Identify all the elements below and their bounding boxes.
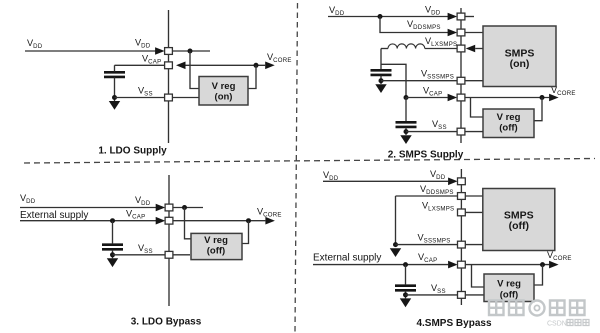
label VLXSMPS (Q2) bbox=[425, 36, 457, 48]
wire: Q2 internal VDD stub bbox=[465, 16, 474, 18]
capacitor C3 (Q2 lower cap) bbox=[396, 122, 417, 135]
wire: Q4 VSS to V reg bbox=[465, 294, 484, 296]
pin VCAP (Q3) bbox=[165, 217, 173, 224]
wire: Q1 VDD rail bbox=[25, 50, 156, 52]
svg-text:(on): (on) bbox=[510, 58, 530, 70]
wire: Q2 VDDSMPS to SMPS box bbox=[465, 32, 483, 34]
wire: Q2 VDD drop to VDDSMPS rail bbox=[380, 17, 448, 33]
ground (Q3) bbox=[107, 258, 118, 267]
wire: Q4 chip boundary vertical line bbox=[460, 169, 462, 305]
pin VCAP (Q4) bbox=[458, 261, 466, 268]
wire: Q3 internal VDD stub bbox=[173, 207, 203, 209]
pin VDD (Q2) bbox=[457, 13, 465, 20]
svg-text:V reg: V reg bbox=[497, 279, 521, 290]
wire: Q4 VDDSMPS drop to ground bbox=[395, 196, 397, 245]
label VDD (at pin, Q1) bbox=[135, 38, 151, 50]
pin VDD (Q4) bbox=[458, 178, 466, 185]
svg-text:V reg: V reg bbox=[204, 235, 228, 246]
label VSSSMPS (Q4) bbox=[418, 233, 451, 245]
label VDDSMPS (Q2) bbox=[407, 19, 441, 31]
node: Q2 VCORE junction bbox=[540, 95, 545, 100]
caption: 4.SMPS Bypass bbox=[416, 318, 491, 329]
wire: Q2 inductor left lead down to cap bbox=[380, 49, 382, 70]
svg-text:(off): (off) bbox=[509, 220, 529, 232]
arrow VCORE out (Q2) bbox=[549, 94, 559, 102]
node: Q1 VCORE junction bbox=[254, 63, 259, 68]
node: Q2 VCAP junction bbox=[404, 95, 409, 100]
wire: Q2 VDD rail bbox=[328, 16, 448, 18]
label VDD (far left, Q4) bbox=[323, 170, 339, 182]
wire: Q2 SMPS box to VLXSMPS arrow bbox=[475, 48, 483, 50]
wire: Q1 VSS to V reg bbox=[172, 97, 199, 99]
node: Q2 VDD junction bbox=[378, 14, 383, 19]
capacitor C2 (Q2 upper cap) bbox=[371, 70, 392, 84]
pin VDD (Q3) bbox=[165, 204, 173, 211]
svg-text:(off): (off) bbox=[500, 289, 518, 300]
label VCAP (Q2) bbox=[423, 86, 442, 98]
pin VDD (Q1) bbox=[165, 48, 173, 55]
wire: Q4 VCORE rail bbox=[465, 264, 549, 266]
svg-text:External supply: External supply bbox=[313, 252, 381, 263]
regulator U5: V reg (off) bbox=[484, 274, 534, 302]
node: Q4 cap junction bbox=[403, 262, 408, 267]
wire: Q3 VSS to V reg bbox=[173, 254, 190, 256]
arrow into VDD pin (Q4) bbox=[448, 178, 458, 186]
pin VDDSMPS (Q4) bbox=[458, 193, 466, 200]
pin VSS (Q4) bbox=[458, 292, 466, 299]
label VCORE (Q1) bbox=[267, 52, 292, 64]
regulator U4: V reg (off) bbox=[191, 233, 242, 259]
wire: Q2 VCAP drop to V reg left bbox=[471, 98, 484, 118]
label VCAP (Q4) bbox=[418, 252, 437, 264]
wire: Q4 VSSSMPS rail bbox=[396, 244, 458, 246]
arrow VCORE out (Q4) bbox=[549, 261, 559, 269]
wire: Q2 VSS rail bbox=[406, 131, 457, 133]
svg-text:2. SMPS Supply: 2. SMPS Supply bbox=[388, 150, 464, 161]
wire: Q3 chip boundary vertical line bbox=[168, 175, 170, 306]
node: Q3 cap/VSS junction bbox=[110, 252, 115, 257]
wire: Q1 VCORE rail bbox=[186, 64, 266, 66]
pin VSSSMPS (Q4) bbox=[458, 241, 466, 248]
separator: horizontal dashed divider between top and bottom halves bbox=[24, 159, 595, 164]
label VCORE (Q2) bbox=[551, 85, 576, 97]
watermark: CSDN @jitie bbox=[547, 320, 589, 328]
wire: Q4 VSS rail bbox=[406, 294, 458, 296]
label VDD (at pin, Q3) bbox=[135, 195, 151, 207]
node: Q1 cap/VSS junction bbox=[112, 95, 117, 100]
wire: Q3 VDD rail bbox=[20, 207, 156, 209]
node: Q3 cap junction bbox=[110, 218, 115, 223]
wire: Q2 VCAP node down to lower cap bbox=[405, 98, 407, 122]
caption: 3. LDO Bypass bbox=[131, 317, 202, 328]
wire: Q4 VDDSMPS to SMPS box bbox=[465, 195, 483, 197]
arrow VCORE out (Q3) bbox=[265, 217, 275, 225]
regulator U1: V reg (on) bbox=[199, 77, 248, 106]
capacitor C4 (Q3 external cap) bbox=[102, 221, 123, 259]
label VDDSMPS (Q4) bbox=[420, 184, 454, 196]
label VSS (Q4) bbox=[431, 283, 446, 295]
pin VDDSMPS (Q2) bbox=[457, 29, 465, 36]
node: Q2 cap/VSSSMPS junction bbox=[379, 78, 384, 83]
wire: Q2 VSSSMPS rail bbox=[381, 80, 457, 82]
wire: Q2 VCAP rail bbox=[406, 97, 448, 99]
label VSSSMPS (Q2) bbox=[421, 69, 454, 81]
svg-text:(off): (off) bbox=[499, 122, 517, 133]
wire: Q1 VSS rail bbox=[115, 97, 165, 99]
SMPS block U3: SMPS (on) bbox=[483, 26, 556, 87]
arrow into VDD pin (Q1) bbox=[155, 47, 165, 55]
wire: Q4 VCORE drop to V reg right bbox=[534, 265, 543, 285]
arrow into VDD pin (Q3) bbox=[156, 204, 166, 212]
label VCORE (Q4) bbox=[547, 250, 572, 262]
SMPS block U6: SMPS (off) bbox=[483, 189, 555, 251]
wire: Q4 VCAP drop to V reg left bbox=[472, 265, 485, 287]
pin VLXSMPS (Q4) bbox=[458, 209, 466, 216]
wire: Q3 VCORE drop to V reg bbox=[242, 221, 249, 244]
capacitor C1 (Q1 external cap) bbox=[104, 65, 125, 101]
ground (Q4 lower) bbox=[400, 298, 411, 307]
svg-text:CSDN: CSDN bbox=[547, 321, 567, 328]
wire: Q2 VSS to V reg bbox=[465, 131, 483, 133]
svg-text:1. LDO Supply: 1. LDO Supply bbox=[98, 146, 167, 157]
arrow into VDD pin (Q2) bbox=[448, 13, 458, 21]
arrow into VCAP pin (Q1) bbox=[176, 62, 186, 70]
arrow into VCAP pin (Q2) bbox=[448, 94, 458, 102]
label VSS (Q1) bbox=[138, 86, 153, 98]
pin VSS (Q2) bbox=[457, 128, 465, 135]
wire: Q4 external supply rail bbox=[313, 264, 448, 266]
ground (Q1) bbox=[109, 101, 120, 110]
node: Q3 VDD junction bbox=[182, 205, 187, 210]
pin VLXSMPS (Q2) bbox=[457, 45, 465, 52]
wire: Q1 chip boundary vertical line bbox=[168, 10, 170, 143]
wire: Q2 branch from cap node to VCAP rail bbox=[381, 64, 406, 97]
svg-text:External supply: External supply bbox=[20, 210, 88, 221]
label VDD (far left, Q2) bbox=[329, 5, 345, 17]
label VSS (Q2) bbox=[432, 119, 447, 131]
ground (Q2 upper) bbox=[375, 84, 386, 93]
wire: Q2 chip boundary vertical line bbox=[460, 8, 462, 143]
wire: Q3 VCORE rail bbox=[173, 220, 266, 222]
wire: Q1 VDD drop to V reg bbox=[190, 51, 199, 89]
pin VCAP (Q2) bbox=[457, 94, 465, 101]
arrow into VLXSMPS pin (Q2) bbox=[466, 45, 476, 53]
svg-text:4.SMPS Bypass: 4.SMPS Bypass bbox=[416, 318, 491, 329]
pin VCAP (Q1) bbox=[165, 62, 173, 69]
label VCORE (Q3) bbox=[257, 207, 282, 219]
label VCAP (Q1) bbox=[142, 54, 161, 66]
node: Q2 lower cap/VSS junction bbox=[404, 129, 409, 134]
pin VSSSMPS (Q2) bbox=[457, 77, 465, 84]
label: External supply (Q3) bbox=[20, 210, 88, 221]
wire: Q4 VDDSMPS rail bbox=[396, 195, 458, 197]
wire: Q1 VCORE drop to V reg bbox=[248, 65, 256, 88]
ground (Q2 lower) bbox=[400, 135, 411, 144]
svg-text:(on): (on) bbox=[215, 91, 233, 102]
label VCAP (Q3) bbox=[126, 209, 145, 221]
arrow VCORE out (Q1) bbox=[265, 62, 275, 70]
wire: Q3 VDD drop to V reg bbox=[185, 208, 192, 239]
inductor L1 (Q2) bbox=[381, 44, 457, 49]
arrow into VDDSMPS pin (Q2) bbox=[448, 29, 458, 37]
separator: vertical dashed divider between left and right halves bbox=[295, 3, 298, 332]
wire: Q2 VSSSMPS to SMPS box bbox=[465, 80, 483, 82]
pin VSS (Q1) bbox=[165, 94, 173, 101]
svg-text:(off): (off) bbox=[207, 246, 225, 257]
label VLXSMPS (Q4) bbox=[422, 201, 454, 213]
wire: Q1 internal VDD stub bbox=[172, 50, 210, 52]
watermark: zhihu @jitie bbox=[489, 301, 585, 316]
label VSS (Q3) bbox=[138, 243, 153, 255]
node: Q4 cap/VSS junction bbox=[403, 292, 408, 297]
caption: 1. LDO Supply bbox=[98, 146, 167, 157]
label VDD (far left, Q3) bbox=[20, 193, 36, 205]
svg-text:V reg: V reg bbox=[497, 112, 521, 123]
wire: Q2 VCORE rail bbox=[465, 97, 549, 99]
wire: Q3 external supply rail bbox=[20, 220, 156, 222]
wire: Q4 VSSSMPS to SMPS box bbox=[465, 244, 483, 246]
regulator U2: V reg (off) bbox=[483, 109, 534, 138]
label VDD (far left, Q1) bbox=[27, 38, 43, 50]
svg-text:3. LDO Bypass: 3. LDO Bypass bbox=[131, 317, 202, 328]
wire: Q4 VDD rail bbox=[323, 180, 448, 182]
label: External supply (Q4) bbox=[313, 252, 381, 263]
node: Q4 VCORE junction bbox=[540, 262, 545, 267]
caption: 2. SMPS Supply bbox=[388, 150, 464, 161]
node: Q4 ground junction bbox=[393, 242, 398, 247]
ground (Q4 upper) bbox=[390, 248, 401, 257]
wire: Q4 VLXSMPS to SMPS box bbox=[465, 211, 483, 213]
label VDD (at pin, Q4) bbox=[430, 169, 446, 181]
wire: Q2 VCORE drop to V reg right bbox=[534, 98, 542, 121]
arrow into VCAP pin (Q3) bbox=[156, 217, 166, 225]
label VDD (at pin, Q2) bbox=[425, 5, 441, 17]
node: Q3 VCORE junction bbox=[246, 218, 251, 223]
node: Q1 VDD junction bbox=[188, 49, 193, 54]
pin VSS (Q3) bbox=[165, 251, 173, 258]
wire: Q1 VCAP rail from capacitor to pin bbox=[115, 64, 165, 66]
arrow into VCAP pin (Q4) bbox=[448, 261, 458, 269]
wire: Q3 VSS rail bbox=[113, 254, 166, 256]
capacitor C5 (Q4 external cap) bbox=[395, 265, 416, 299]
